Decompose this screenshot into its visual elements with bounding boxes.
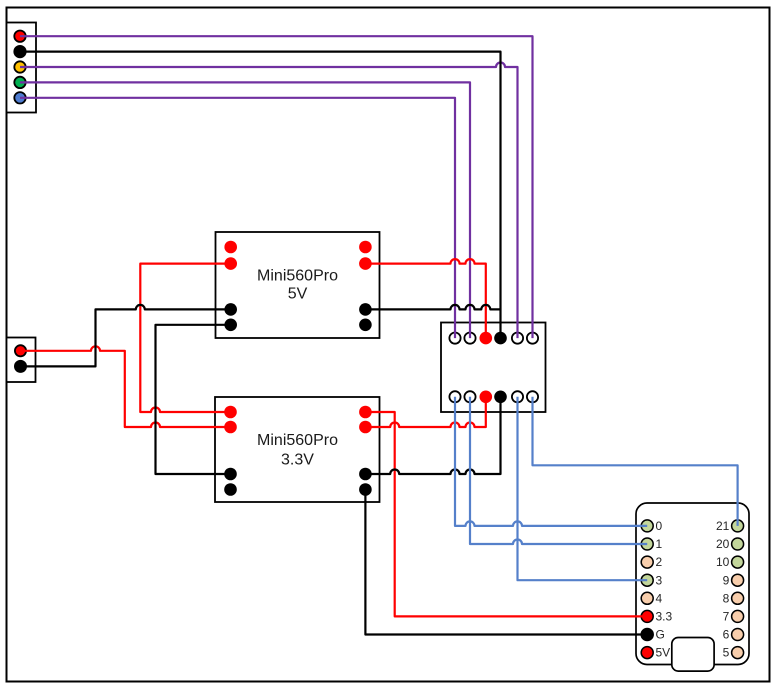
wire (purple) J1 yellow pin to J3 top pin 5, hop over black vertical — [20, 63, 518, 339]
svg-text:G: G — [656, 628, 665, 642]
U1 pin 9 — [732, 574, 744, 586]
U1 pin 3.3 — [641, 610, 653, 622]
J3 bottom pin 6 — [527, 391, 538, 402]
svg-text:5V: 5V — [288, 286, 308, 303]
svg-text:6: 6 — [723, 628, 730, 642]
wire (blue) J3 bottom pin 5 to U1 pin 3 — [518, 397, 648, 580]
J3 top pin 6 — [527, 333, 538, 344]
U2 pin GND 2 left (black) — [224, 319, 237, 332]
svg-text:21: 21 — [716, 519, 730, 533]
U1 pin 3 — [641, 574, 653, 586]
J1 pin 3 (yellow) — [14, 61, 25, 72]
svg-text:3: 3 — [656, 573, 663, 587]
U1 pin 6 — [732, 629, 744, 641]
svg-text:5: 5 — [723, 646, 730, 660]
J3 bottom pin 4 (black) — [494, 391, 507, 404]
wire (red) U3 VOUT+ 2 to J3 bottom pin 3, hops over red and blue verticals — [365, 397, 485, 427]
U1 pin 5V — [641, 647, 653, 659]
U2 pin VIN+ 2 left (red) — [224, 257, 237, 270]
U2 pin GND right (black) — [359, 303, 372, 316]
wire (black) J2 black pin to U2 GND left, hop over red vertical — [21, 305, 231, 367]
U1 pin 4 — [641, 592, 653, 604]
wire (blue) J3 bottom pin 6 to U1 pin 21 — [533, 397, 738, 526]
wire (purple) J1 red pin to J3 top pin 6 — [20, 36, 533, 338]
svg-text:5V: 5V — [656, 646, 671, 660]
U1 pin G — [641, 629, 653, 641]
wire (black) U3 GND right to J3 bottom pin 4, hops over verticals — [365, 397, 500, 474]
regulator module U2 Mini560Pro 5V body — [216, 232, 380, 338]
U3 pin VOUT+ 2 right (red) — [359, 421, 372, 434]
J3 top pin 1 — [449, 333, 460, 344]
J3 bottom pin 2 — [464, 391, 475, 402]
wire (purple) J1 blue pin to J3 top pin 1 — [20, 98, 455, 338]
U3 pin VOUT+ top-right (red) — [359, 406, 372, 419]
svg-text:0: 0 — [656, 519, 663, 533]
U1 pin 10 — [732, 556, 744, 568]
svg-text:2: 2 — [656, 555, 663, 569]
connector J2 body (2-pin power input, left) — [7, 338, 36, 383]
svg-text:3.3V: 3.3V — [281, 452, 314, 469]
U2 pin VOUT+ 2 right (red) — [359, 257, 372, 270]
U3 pin VIN+ top-left (red) — [224, 406, 237, 419]
wire (black) J1 black pin to J3 top pin 4 — [20, 52, 501, 339]
wire (purple) J1 green pin to J3 top pin 2 — [20, 82, 470, 338]
U3 pin GND 2 left (black) — [224, 483, 237, 496]
U1 pin 7 — [732, 610, 744, 622]
J3 top pin 4 (black) — [494, 332, 507, 345]
wire (black) U2 GND right to junction with J3 pin 4 drop, hops over verticals — [365, 305, 500, 310]
wire (red) J2 red pin to U3 VIN+ 2, hops over two black verticals — [21, 346, 231, 427]
U2 pin VOUT+ top-right (red) — [359, 241, 372, 254]
J2 pin 2 (black) — [15, 361, 26, 372]
regulator module U3 Mini560Pro 3.3V body — [215, 397, 380, 502]
svg-text:1: 1 — [656, 537, 663, 551]
svg-text:10: 10 — [716, 555, 730, 569]
U1 pin 0 — [641, 520, 653, 532]
svg-text:8: 8 — [723, 591, 730, 605]
U1 pin 20 — [732, 538, 744, 550]
U2 pin GND 2 right (black) — [359, 319, 372, 332]
J2 pin 1 (red) — [15, 345, 26, 356]
U3 pin GND 2 right (black) — [359, 483, 372, 496]
svg-text:3.3: 3.3 — [656, 610, 673, 624]
J1 pin 1 (red) — [14, 31, 25, 42]
wire (red) U3 VOUT+ to U1 pin 3.3 — [365, 412, 647, 616]
wire (blue) J3 bottom pin 2 to U1 pin 1, hop over blue vertical — [470, 397, 647, 544]
U1 pin 5 — [732, 647, 744, 659]
U1 USB notch — [672, 638, 714, 672]
svg-text:9: 9 — [723, 573, 730, 587]
connector J3 body (2x6 distribution header) — [441, 323, 546, 413]
J1 pin 5 (blue) — [14, 92, 25, 103]
J3 top pin 2 — [464, 333, 475, 344]
J1 pin 2 (black) — [14, 46, 25, 57]
J3 bottom pin 3 (red) — [480, 391, 493, 404]
J3 bottom pin 1 — [449, 391, 460, 402]
wire (black) U3 GND 2 right to U1 pin G — [365, 490, 647, 635]
wire (red) U2 VOUT+ 2 to J3 top pin 3, hops over purple verticals — [365, 259, 485, 338]
J3 bottom pin 5 — [512, 391, 523, 402]
U3 pin VIN+ 2 left (red) — [224, 421, 237, 434]
U2 pin VIN+ top-left (red) — [224, 241, 237, 254]
U3 pin GND left (black) — [224, 468, 237, 481]
U1 pin 2 — [641, 556, 653, 568]
U1 pin 1 — [641, 538, 653, 550]
J3 top pin 3 (red) — [480, 332, 493, 345]
microcontroller board U1 body — [636, 503, 749, 665]
svg-text:Mini560Pro: Mini560Pro — [257, 432, 338, 449]
svg-text:7: 7 — [723, 610, 730, 624]
svg-text:4: 4 — [656, 591, 663, 605]
svg-text:20: 20 — [716, 537, 730, 551]
J1 pin 4 (green) — [14, 77, 25, 88]
wire (blue) J3 bottom pin 1 to U1 pin 0, hops over blue verticals — [455, 397, 647, 526]
svg-text:Mini560Pro: Mini560Pro — [257, 268, 338, 285]
U1 pin 21 — [732, 520, 744, 532]
U2 pin GND left (black) — [224, 303, 237, 316]
U1 pin 8 — [732, 592, 744, 604]
wire (black) U2 GND 2 left to U3 GND left — [156, 325, 231, 474]
J3 top pin 5 — [512, 333, 523, 344]
wire (red) U2 VIN+ 2 to U3 VIN+, hop over black vertical — [140, 264, 230, 412]
connector J1 body (5-pin header, top-left) — [7, 23, 37, 113]
U3 pin GND right (black) — [359, 468, 372, 481]
